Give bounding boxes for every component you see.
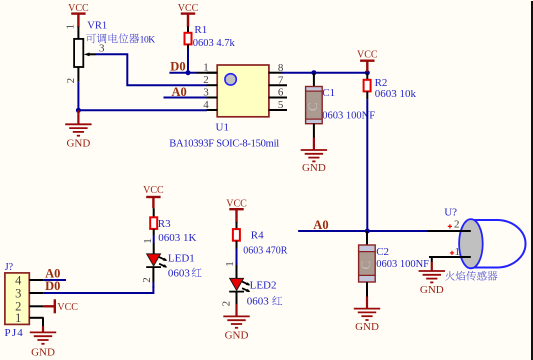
svg-text:VR1: VR1 — [87, 21, 107, 32]
svg-text:0603 1K: 0603 1K — [158, 232, 196, 244]
ground GND (PJ4) — [42, 326, 44, 332]
capacitor C1 — [306, 87, 323, 124]
svg-text:R3: R3 — [158, 218, 171, 230]
value label 火焰传感器 — [445, 271, 455, 281]
svg-text:LED1: LED1 — [168, 253, 195, 265]
svg-text:C2: C2 — [376, 246, 389, 258]
svg-text:R4: R4 — [251, 230, 264, 242]
pin hotspot cross (pin 1) — [451, 251, 453, 255]
svg-text:D0: D0 — [45, 279, 60, 293]
resistor R1 — [185, 33, 192, 45]
svg-text:1: 1 — [454, 246, 460, 258]
LED LED2 — [230, 278, 244, 290]
svg-text:4: 4 — [203, 99, 209, 111]
wire VR1 bottom to U1 pin 4 — [78, 109, 207, 111]
U1 left pin stubs (pins 1-4) — [207, 72, 218, 74]
power symbol VCC (PJ4 pin 2, horizontal) — [44, 305, 55, 307]
svg-text:10K: 10K — [140, 35, 156, 45]
wire R4 to LED2 — [236, 241, 238, 249]
svg-text:VCC: VCC — [57, 302, 78, 313]
wire sensor pin 1 to GND — [431, 257, 433, 262]
svg-text:0603 4.7k: 0603 4.7k — [193, 38, 236, 49]
wire R1 to D0 node — [187, 44, 189, 48]
svg-text:GND: GND — [225, 330, 249, 342]
junction node C1 top — [311, 70, 316, 75]
wire to capacitor C1 — [313, 73, 315, 87]
svg-text:VCC: VCC — [178, 3, 199, 14]
svg-text:A0: A0 — [45, 266, 60, 280]
svg-text:0603 100NF: 0603 100NF — [376, 259, 429, 270]
svg-text:1: 1 — [64, 24, 76, 30]
capacitor C2 — [359, 245, 376, 282]
svg-text:6: 6 — [278, 87, 284, 99]
ground GND (C2) — [366, 297, 368, 309]
svg-text:1: 1 — [203, 62, 209, 74]
svg-text:0603 470R: 0603 470R — [243, 245, 287, 256]
svg-text:LED2: LED2 — [250, 279, 277, 291]
wire VCC to R3 — [153, 208, 155, 217]
LED LED1 — [147, 254, 161, 266]
svg-text:3: 3 — [203, 87, 209, 99]
svg-text:GND: GND — [31, 347, 55, 359]
wire net D0 to U1 pin 1 — [169, 72, 197, 74]
svg-text:0603: 0603 — [168, 267, 191, 279]
wire VCC to R4 — [236, 222, 238, 229]
sensor front ellipse — [459, 219, 483, 268]
svg-text:VCC: VCC — [226, 198, 247, 209]
svg-text:C: C — [358, 261, 373, 270]
svg-text:D0: D0 — [170, 60, 185, 74]
sensor pin 2 — [427, 230, 471, 232]
svg-text:J?: J? — [5, 262, 14, 273]
svg-text:PJ4: PJ4 — [5, 327, 25, 339]
svg-text:BA10393F SOIC-8-150mil: BA10393F SOIC-8-150mil — [169, 138, 279, 149]
ground GND (C1) — [313, 138, 315, 151]
wire U1 pin 8 to C1/R2/VCC — [282, 72, 368, 74]
svg-text:U1: U1 — [216, 122, 229, 134]
svg-text:VCC: VCC — [357, 50, 378, 61]
connector pin stubs — [29, 279, 43, 281]
wire R2 down to A0 net — [366, 91, 368, 99]
wire C2 to GND — [366, 282, 368, 297]
resistor R4 — [233, 229, 240, 241]
svg-text:2: 2 — [203, 74, 209, 86]
potentiometer VR1 — [74, 39, 83, 67]
wire net A0 to U1 pin 3 — [164, 97, 208, 99]
svg-text:2: 2 — [454, 219, 460, 231]
ground GND (VR1) — [77, 110, 79, 124]
wire VR1 wiper to U1 pin 2 — [96, 54, 207, 85]
svg-text:GND: GND — [420, 284, 444, 296]
wire C1 to GND — [313, 124, 315, 138]
ground GND (sensor) — [431, 262, 433, 271]
junction node A0/R2/C2 — [365, 229, 370, 234]
wire LED1 cathode down to D0 — [152, 267, 154, 282]
op-amp U1 (dual comparator, SOIC-8 body) — [217, 65, 269, 117]
svg-text:4: 4 — [15, 273, 22, 287]
wire VCC to VR1 pin 1 — [77, 27, 79, 40]
svg-text:U?: U? — [444, 206, 457, 218]
svg-text:7: 7 — [278, 74, 284, 86]
junction node at VR1 bottom — [76, 108, 81, 113]
svg-text:3: 3 — [99, 43, 105, 55]
resistor R3 — [150, 217, 157, 229]
sheet edge (right border) — [531, 1, 533, 360]
svg-text:0603: 0603 — [247, 296, 270, 308]
resistor R2 — [366, 73, 368, 80]
wire R3 to LED1 — [153, 229, 155, 235]
svg-text:2: 2 — [65, 78, 77, 84]
svg-text:1: 1 — [224, 261, 236, 267]
svg-text:VCC: VCC — [143, 185, 164, 196]
junction node R2 top — [365, 70, 370, 75]
sensor pin 1 — [429, 256, 471, 258]
sensor body outline — [471, 220, 526, 268]
svg-text:2: 2 — [221, 301, 233, 307]
wire VCC to R1 — [187, 26, 189, 33]
svg-text:1: 1 — [15, 311, 21, 325]
pin hotspot cross (pin 2) — [449, 224, 451, 228]
wire PJ4 pin 1 to GND — [42, 318, 44, 326]
wire stub net A0 — [44, 279, 66, 281]
svg-text:R2: R2 — [375, 77, 388, 89]
svg-text:R1: R1 — [194, 24, 207, 36]
svg-text:5: 5 — [278, 99, 284, 111]
svg-text:3: 3 — [15, 286, 21, 300]
svg-text:GND: GND — [355, 321, 379, 333]
svg-text:C: C — [305, 102, 320, 111]
svg-text:C1: C1 — [322, 87, 335, 99]
junction node D0/R1 — [186, 70, 191, 75]
pin-1 indicator dot of U1 — [225, 74, 236, 85]
svg-text:VCC: VCC — [68, 3, 89, 14]
svg-text:GND: GND — [302, 162, 326, 174]
U1 right pin stubs (pins 8-5) — [269, 72, 283, 74]
value label 可调电位器10K — [86, 34, 96, 44]
wire net D0 from PJ4 to LED1 — [44, 287, 154, 294]
svg-text:GND: GND — [66, 137, 90, 149]
svg-text:0603 10k: 0603 10k — [375, 88, 417, 100]
wire LED2 cathode to GND — [236, 292, 238, 304]
wire to capacitor C2 — [366, 231, 368, 245]
ground GND (LED2) — [235, 304, 237, 316]
svg-text:2: 2 — [141, 277, 153, 283]
svg-text:1: 1 — [142, 238, 154, 244]
wire VR1 pin 2 down — [77, 67, 79, 82]
wire net A0 horizontal run — [298, 230, 427, 232]
